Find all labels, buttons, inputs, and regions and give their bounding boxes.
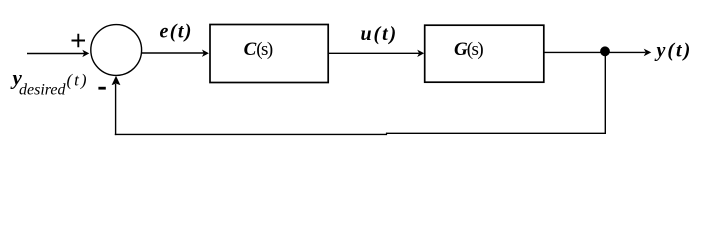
arrowhead into summing junction bottom	[112, 76, 121, 85]
wire u(t)	[328, 52, 419, 54]
minus sign	[98, 87, 105, 90]
arrowhead into G(s)	[417, 50, 424, 57]
wire e(t)	[142, 52, 204, 54]
svg-text:(t): (t)	[67, 70, 89, 89]
block C(s)	[210, 25, 328, 83]
feedback wire horizontal right	[387, 132, 607, 134]
arrowhead output	[644, 49, 652, 57]
arrowhead input into summing junction	[82, 50, 89, 57]
svg-text:desired: desired	[19, 82, 67, 99]
feedback wire step	[386, 133, 388, 136]
feedback wire vertical left	[115, 84, 117, 135]
svg-text:y(t): y(t)	[655, 40, 693, 62]
plus sign	[72, 34, 86, 47]
svg-text:e(t): e(t)	[160, 20, 193, 42]
svg-text:C(s): C(s)	[244, 39, 273, 60]
feedback wire vertical right	[604, 52, 606, 134]
wire output	[544, 51, 646, 53]
svg-text:G(s): G(s)	[454, 39, 483, 60]
arrowhead into C(s)	[202, 50, 209, 57]
summing junction	[91, 25, 142, 76]
wire input reference	[27, 53, 85, 55]
svg-text:u(t): u(t)	[361, 23, 399, 45]
node pick-off junction dot	[600, 46, 610, 56]
block G(s)	[425, 25, 544, 82]
feedback wire horizontal left	[115, 133, 387, 135]
